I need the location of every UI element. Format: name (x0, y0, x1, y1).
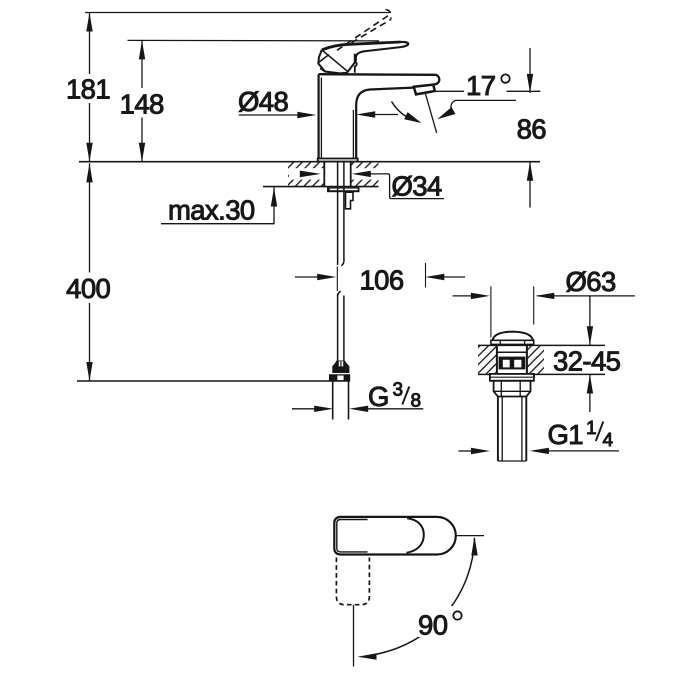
drain valve slot band (499, 357, 526, 370)
90 degree arc (375, 538, 475, 655)
faucet handle bulb (318, 50, 355, 74)
dimension Ø63 (453, 295, 472, 297)
dimension 181 line (89, 13, 91, 162)
reference line handle rest (148 height) (128, 39, 380, 42)
counter hatch right of faucet (351, 162, 379, 187)
faucet lever tip (401, 42, 409, 47)
dimension 400 line (89, 163, 91, 381)
faucet handle bulb facet lines (319, 51, 348, 72)
counter top line (79, 161, 540, 163)
drain cap rim (491, 340, 534, 344)
90 degree reference line (456, 535, 484, 537)
svg-text:400: 400 (66, 273, 110, 304)
faucet base plate (318, 159, 358, 162)
svg-text:32-45: 32-45 (553, 346, 621, 377)
faucet dashed raised lever (337, 10, 391, 51)
svg-text:Ø48: Ø48 (238, 86, 288, 117)
faucet lever underside (356, 47, 401, 61)
counter hatch left of faucet (288, 162, 324, 187)
faucet handle bulb right notch (355, 62, 357, 73)
faucet body inner contour lines (321, 78, 353, 159)
svg-text:Ø63: Ø63 (566, 266, 616, 297)
faucet body top / spout top line (319, 73, 436, 76)
svg-text:86: 86 (517, 113, 547, 144)
svg-text:181: 181 (66, 74, 110, 105)
dimension Ø34 arrows (300, 171, 321, 178)
rotated handle axis line (353, 605, 355, 667)
reference line top (181 height) (85, 12, 390, 14)
svg-text:4: 4 (603, 430, 614, 451)
counter bottom line / max30 line (263, 186, 379, 188)
dimension G1 1/4 (533, 450, 619, 452)
faucet shank through counter (324, 162, 350, 187)
svg-text:148: 148 (120, 89, 164, 120)
faucet lever handle top edge (322, 42, 401, 50)
17 degree horizontal reference line (433, 90, 540, 92)
dimension 106 (295, 276, 318, 278)
dimension max.30 (161, 188, 274, 224)
drain valve body (497, 344, 527, 374)
dimension 32-45 (589, 297, 591, 413)
faucet mounting step fittings (346, 192, 354, 209)
drain counter bottom line (478, 373, 605, 375)
drain counter top line (478, 344, 605, 346)
dimension 86 line (529, 48, 531, 208)
rotated handle inner base outline (337, 520, 368, 552)
90 degree text (414, 606, 466, 637)
svg-text:8: 8 (411, 391, 422, 412)
faucet body left edge (318, 74, 320, 158)
rotated handle lever front contour (407, 518, 424, 553)
svg-text:Ø34: Ø34 (392, 171, 442, 202)
dimension 148 line (141, 40, 143, 161)
rotated handle dashed body (336, 558, 369, 605)
svg-text:106: 106 (359, 264, 403, 295)
svg-text:max.30: max.30 (168, 194, 255, 225)
drain pop-up dome cap (493, 332, 533, 340)
faucet spout underside (356, 88, 414, 159)
svg-text:17: 17 (466, 70, 495, 101)
flexible hose upper segment (338, 162, 344, 266)
drain washer flange (490, 374, 534, 381)
dimension Ø48 right arrow (373, 114, 398, 116)
flexible hose lower segment (338, 291, 344, 361)
17 degree leader line (451, 100, 516, 108)
G3/8 threaded end pipe (333, 381, 349, 419)
svg-text:G1: G1 (548, 419, 584, 450)
hose end crimp fitting (332, 361, 349, 374)
reference line bottom (400 below counter) (77, 380, 350, 382)
faucet silhouette fill (318, 42, 408, 73)
svg-text:90: 90 (418, 610, 448, 641)
svg-text:3: 3 (393, 380, 404, 401)
rotated handle detail: outer shape (334, 517, 456, 555)
svg-text:1: 1 (586, 418, 597, 439)
faucet spout tip (433, 75, 439, 85)
drain tailpipe G1 1/4 (498, 397, 526, 462)
flow direction curved arrow (392, 102, 408, 118)
drain counter hatch right (527, 345, 544, 374)
dimension G3/8 (292, 408, 316, 410)
drain counter hatch left (478, 345, 497, 374)
drain locknut (494, 381, 531, 397)
svg-text:G: G (368, 381, 389, 412)
faucet mounting washer nut (327, 187, 360, 192)
hatch mask for dim arrows (289, 168, 379, 179)
faucet aerator outlet (414, 85, 435, 95)
drain assembly: Ø63 extension lines (491, 286, 534, 337)
hose connection nut (332, 373, 349, 374)
17 degree aerator plane line (425, 93, 437, 134)
hose break extension line (336, 266, 338, 291)
